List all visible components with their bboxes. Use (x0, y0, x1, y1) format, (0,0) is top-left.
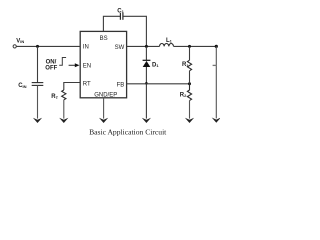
svg-text:GND/EP: GND/EP (94, 93, 117, 99)
wire D1 anode to ground crossing FB net (145, 67, 147, 119)
capacitor C2 plate tick (213, 64, 217, 66)
ground (IC GND/EP) (99, 118, 108, 123)
capacitor CIN (32, 83, 44, 86)
svg-text:Basic Application Circuit: Basic Application Circuit (89, 128, 167, 137)
wire C1 right plate down to SW node (123, 16, 146, 46)
svg-text:OFF: OFF (45, 65, 57, 71)
terminal VIN (13, 45, 16, 48)
wire SW node down to D1 cathode (145, 46, 147, 60)
svg-text:BS: BS (100, 36, 108, 42)
wire SW pin to output corner (127, 45, 160, 47)
ground (R2) (185, 118, 194, 123)
wire RT to ground (63, 100, 65, 119)
node input junction (36, 45, 39, 48)
diode D1 (143, 60, 151, 67)
svg-text:VIN: VIN (16, 38, 24, 44)
svg-text:RT: RT (51, 94, 58, 100)
svg-text:FB: FB (117, 83, 125, 89)
inductor L1 (160, 44, 174, 47)
ground (CIN) (33, 118, 42, 123)
ground (D1) (142, 118, 151, 123)
svg-text:R1: R1 (182, 62, 189, 68)
wire output node down to R1 (189, 46, 191, 60)
svg-text:R2: R2 (180, 92, 187, 98)
node SW junction (145, 45, 148, 48)
resistor RT (62, 90, 66, 100)
svg-text:EN: EN (83, 64, 91, 70)
node output junction at R1 (188, 45, 191, 48)
wire VIN to IN pin (16, 45, 80, 47)
capacitor C1 (120, 13, 123, 20)
wire output corner down right branch (215, 46, 217, 118)
ground (RT) (59, 118, 68, 123)
wire R1 to divider node (189, 71, 191, 84)
node feedback divider junction (188, 82, 191, 85)
wire arrow into EN pin (69, 64, 76, 66)
wire CIN to ground (37, 85, 39, 118)
resistor R1 (187, 60, 191, 71)
ground (output) (212, 118, 221, 123)
wire GND pin to ground (103, 98, 105, 119)
wire RT pin to resistor RT (64, 83, 80, 91)
wire input node down to CIN (37, 46, 39, 82)
svg-text:D1: D1 (152, 62, 159, 68)
wire FB pin to divider node (127, 83, 190, 85)
node output corner (215, 45, 218, 48)
svg-text:RT: RT (83, 82, 91, 88)
svg-text:SW: SW (115, 45, 125, 51)
op-amp U1 IC body (80, 31, 126, 97)
svg-text:CIN: CIN (18, 83, 26, 89)
ON/OFF step waveform symbol (59, 58, 66, 66)
resistor R2 (187, 84, 191, 101)
node D1/FB junction (145, 82, 148, 85)
wire BS pin up and left plate lead of C1 (103, 16, 120, 31)
svg-text:C1: C1 (117, 8, 124, 14)
svg-text:IN: IN (83, 45, 89, 51)
svg-text:L1: L1 (166, 38, 173, 44)
wire L1 to output rail (174, 45, 217, 47)
wire R2 to ground (189, 101, 191, 119)
